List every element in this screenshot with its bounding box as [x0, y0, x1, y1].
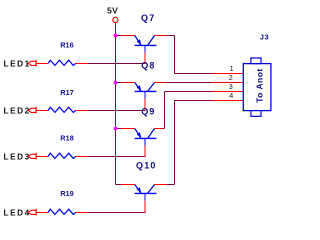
svg-text:1: 1	[230, 64, 234, 73]
power symbol 5V	[107, 5, 118, 25]
port LED3	[28, 153, 36, 160]
svg-text:5V: 5V	[107, 5, 118, 15]
wire 5V rail	[115, 25, 117, 185]
svg-text:LED4: LED4	[4, 209, 31, 218]
svg-text:Q10: Q10	[136, 161, 157, 171]
junction node at Q8 emitter	[114, 81, 118, 85]
svg-text:LED3: LED3	[4, 153, 31, 162]
transistor Q8	[116, 60, 167, 110]
wire Q8 collector to J3 pin 2	[167, 82, 212, 84]
connector J3	[211, 32, 271, 116]
transistor Q9	[116, 107, 164, 157]
svg-text:R19: R19	[60, 189, 74, 198]
wire Q10 collector to J3 pin 4	[167, 101, 212, 185]
resistor R16	[37, 40, 88, 65]
svg-text:To Anot: To Anot	[255, 68, 265, 103]
wire LED1 to base Q7	[88, 63, 146, 65]
svg-text:3: 3	[229, 82, 233, 91]
pin 1	[211, 73, 243, 75]
junction node at Q7 emitter	[114, 34, 118, 38]
port LED4	[28, 209, 36, 216]
wire Q7 collector to J3 pin 1	[167, 36, 212, 74]
port LED2	[28, 107, 36, 114]
svg-text:Q7: Q7	[141, 13, 155, 23]
svg-text:LED1: LED1	[4, 60, 31, 69]
transistor Q10	[116, 161, 167, 213]
svg-text:LED2: LED2	[4, 107, 31, 116]
port LED1	[28, 60, 36, 67]
svg-text:Q8: Q8	[141, 60, 155, 70]
resistor R19	[37, 189, 88, 215]
transistor Q7	[116, 13, 167, 64]
wire LED2 to base Q8	[88, 110, 146, 112]
junction node at Q9 emitter	[114, 127, 118, 131]
svg-text:J3: J3	[260, 32, 269, 41]
svg-text:R18: R18	[60, 133, 74, 142]
resistor R18	[37, 133, 88, 158]
wire LED3 to base Q9	[88, 156, 146, 158]
connector bottom tab	[251, 111, 261, 117]
svg-text:4: 4	[229, 91, 233, 100]
svg-text:R17: R17	[60, 88, 74, 97]
pin 2	[211, 82, 243, 84]
svg-text:Q9: Q9	[141, 107, 155, 117]
wire Q9 collector to J3 pin 3	[164, 92, 212, 129]
pin 3	[211, 91, 243, 93]
svg-text:2: 2	[229, 73, 233, 82]
svg-text:R16: R16	[60, 40, 74, 49]
pin 4	[211, 100, 243, 102]
connector top tab	[251, 58, 261, 64]
wire LED4 to base Q10	[88, 212, 146, 214]
resistor R17	[37, 88, 88, 113]
connector body	[243, 64, 271, 111]
